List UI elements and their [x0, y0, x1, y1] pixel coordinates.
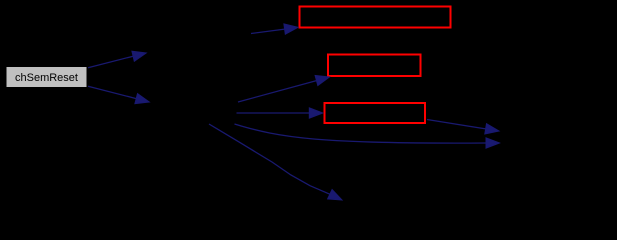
node (red, truncated) lower — [325, 103, 426, 123]
node (red, truncated) top — [300, 7, 451, 28]
edge f: lower hidden node -> far right hidden node (curved) — [235, 124, 500, 148]
edge g: lower hidden node -> bottom hidden node (curved) — [209, 124, 342, 200]
node chSemReset (current node, grey) — [6, 67, 87, 88]
edge c: upper hidden node -> top red node — [251, 24, 298, 34]
edge e: lower hidden node -> lower red node — [237, 108, 323, 118]
svg-text:chSemReset: chSemReset — [15, 72, 78, 84]
edge h: lower red node -> far right hidden node — [427, 120, 499, 135]
edge a: chSemReset -> upper hidden node — [88, 51, 146, 68]
node (red, truncated) middle — [328, 55, 421, 77]
edge d: lower hidden node -> middle red node — [238, 76, 330, 103]
edge b: chSemReset -> lower hidden node — [88, 86, 149, 104]
